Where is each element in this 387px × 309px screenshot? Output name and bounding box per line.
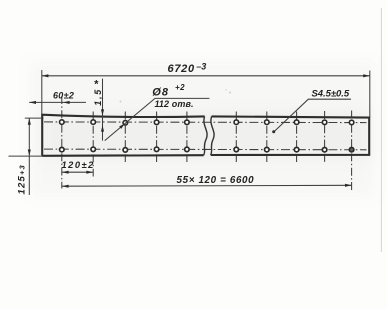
hole row1 col9 (322, 120, 327, 125)
plate outline right part (211, 116, 370, 155)
hole row2 col10 (349, 147, 354, 152)
hole row2 col8 (294, 147, 299, 152)
wire column centerline 7 (266, 112, 268, 163)
hole row1 col2 (91, 120, 96, 125)
svg-text:+2: +2 (175, 83, 185, 92)
hole row2 col6 (234, 147, 239, 152)
svg-text:1,5: 1,5 (93, 88, 103, 106)
dimension 6720 line (42, 75, 370, 77)
dimension 125 extension line bottom (9, 155, 44, 157)
leader for thickness callout S4.5 (274, 99, 351, 132)
svg-text:S4.5±0.5: S4.5±0.5 (312, 88, 350, 99)
svg-text:6720: 6720 (168, 63, 195, 75)
plate outline left part (42, 115, 204, 156)
hole row2 col2 (91, 147, 96, 152)
dimension 60±2 line (29, 101, 86, 103)
svg-text:120±2: 120±2 (62, 160, 95, 170)
node row centerline top (44, 121, 367, 124)
break line left piece (204, 116, 207, 155)
dimension 6720 extension line right (369, 71, 371, 118)
hole row1 col7 (265, 120, 270, 125)
hole row1 col5 (185, 120, 190, 125)
hole row2 col9 (322, 147, 327, 152)
svg-text:125+3: 125+3 (17, 164, 28, 194)
svg-text:–3: –3 (196, 62, 206, 72)
faint scan specks (120, 101, 122, 103)
hole row1 col1 (60, 120, 65, 125)
wire column centerline 3 (124, 112, 126, 163)
hole row1 col3 (123, 121, 128, 126)
wire column centerline 6 (235, 112, 237, 163)
break line right piece (211, 116, 214, 155)
hole row2 col3 (123, 148, 128, 153)
hole row1 col10 (349, 120, 354, 125)
wire column centerline 4 (156, 112, 158, 163)
wire column centerline 1 (61, 96, 63, 189)
dimension 6720 extension line left (41, 70, 43, 115)
hole row1 col8 (294, 120, 299, 125)
wire column centerline 8 (296, 112, 298, 163)
dimension 6600 line (62, 184, 352, 187)
dimension 120±2 line (62, 171, 93, 173)
hole row2 col1 (60, 147, 65, 152)
scan tone wash (30, 62, 375, 197)
node row centerline bottom (44, 148, 367, 151)
wire column centerline 10 (351, 111, 353, 191)
hole row2 col4 (154, 147, 159, 152)
wire column centerline 2 (92, 112, 94, 177)
svg-text:60±2: 60±2 (53, 90, 74, 100)
svg-text:55× 120 = 6600: 55× 120 = 6600 (177, 175, 255, 186)
dimension 1,5 line (102, 79, 104, 141)
svg-text:Ø8: Ø8 (152, 86, 169, 98)
hole row2 col7 (265, 147, 270, 152)
wire column centerline 9 (324, 111, 326, 163)
wire column centerline 5 (186, 112, 188, 163)
dimension 125 line (28, 118, 30, 195)
scan artifact line right side (380, 8, 382, 252)
svg-text:112 отв.: 112 отв. (155, 99, 194, 109)
leader for hole callout (105, 98, 210, 140)
hole row2 col5 (185, 147, 190, 152)
hole row1 col6 (234, 120, 239, 125)
dimension 125 extension line top (25, 117, 44, 119)
hole row1 col4 (154, 120, 159, 125)
